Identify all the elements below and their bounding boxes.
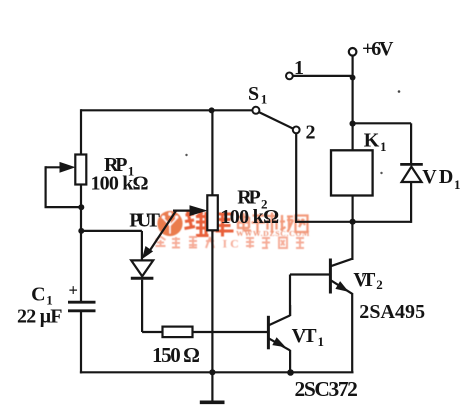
svg-text:K: K bbox=[364, 129, 380, 151]
svg-text:2: 2 bbox=[376, 277, 383, 292]
svg-text:2SC372: 2SC372 bbox=[295, 377, 358, 401]
svg-text:2: 2 bbox=[306, 122, 316, 144]
svg-text:C: C bbox=[31, 284, 45, 306]
svg-text:VT: VT bbox=[292, 325, 318, 347]
svg-text:WWW.DZSC.COM: WWW.DZSC.COM bbox=[236, 229, 310, 238]
svg-text:PUT: PUT bbox=[129, 210, 160, 232]
svg-text:S: S bbox=[248, 83, 259, 105]
svg-text:1: 1 bbox=[294, 57, 304, 79]
svg-text:VT: VT bbox=[353, 269, 376, 291]
svg-text:22 μF: 22 μF bbox=[17, 305, 63, 327]
svg-text:+6V: +6V bbox=[362, 38, 394, 60]
svg-text:100 kΩ: 100 kΩ bbox=[221, 206, 280, 228]
svg-text:1: 1 bbox=[454, 177, 461, 192]
svg-text:1: 1 bbox=[380, 139, 387, 154]
svg-text:IC: IC bbox=[223, 237, 242, 251]
svg-text:1: 1 bbox=[261, 92, 268, 107]
svg-text:2SA495: 2SA495 bbox=[359, 301, 425, 323]
svg-text:VD: VD bbox=[422, 166, 453, 188]
svg-text:+: + bbox=[69, 280, 78, 299]
svg-text:100 kΩ: 100 kΩ bbox=[91, 173, 149, 195]
svg-text:150 Ω: 150 Ω bbox=[152, 343, 200, 367]
svg-text:1: 1 bbox=[318, 334, 325, 349]
